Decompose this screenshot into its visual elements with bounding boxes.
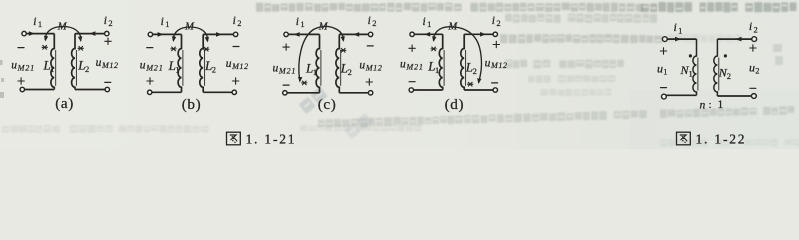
svg-text:1: 1 <box>38 19 42 29</box>
svg-text:i: i <box>423 16 426 28</box>
terminal bottom-right (fig22) <box>752 94 757 99</box>
current arrow i1 (c) <box>294 32 300 37</box>
polarity + right (fig22) <box>750 45 756 51</box>
polarity - top-right (c) <box>367 45 373 47</box>
svg-text:u: u <box>400 59 406 71</box>
page background <box>0 0 799 149</box>
svg-text:1: 1 <box>689 68 693 78</box>
dot marker L1 (b) <box>171 47 176 51</box>
wire top-left (b) <box>153 33 182 35</box>
svg-text:1: 1 <box>300 19 304 29</box>
terminal top-left (b) <box>148 32 152 36</box>
wire top-right (b) <box>203 33 233 35</box>
coupling arc M (c) <box>299 26 344 81</box>
inductor L1 (b) <box>178 34 183 92</box>
current arrow i2 (a) <box>89 31 95 36</box>
svg-text:M21: M21 <box>405 62 423 71</box>
wire top-left (fig22) <box>667 38 697 40</box>
svg-text:u: u <box>749 61 755 75</box>
svg-text:(a): (a) <box>55 95 74 112</box>
terminal bottom-right (d) <box>493 88 497 92</box>
svg-text:2: 2 <box>85 64 89 74</box>
terminal bottom-left (d) <box>409 88 413 92</box>
svg-text:1: 1 <box>663 67 667 77</box>
polarity + top-left (d) <box>409 45 415 51</box>
dot marker L2 (a) <box>78 46 83 50</box>
polarity - bottom-right (d) <box>492 82 498 84</box>
svg-text:M21: M21 <box>278 66 296 75</box>
winding N2 <box>714 39 719 96</box>
terminal bottom-left (fig22) <box>662 94 667 99</box>
svg-text:1: 1 <box>165 19 169 29</box>
inductor L1 (c) <box>316 34 321 92</box>
svg-text:1: 1 <box>427 19 431 29</box>
svg-text:1. 1-22: 1. 1-22 <box>696 131 747 146</box>
polarity - left (fig22) <box>661 87 667 89</box>
svg-text::: : <box>709 99 712 111</box>
svg-text:M12: M12 <box>365 63 383 72</box>
current arrow i2 (d) <box>480 32 486 37</box>
polarity dot N1 <box>689 54 692 57</box>
svg-text:1: 1 <box>50 64 54 74</box>
svg-text:n: n <box>700 99 706 111</box>
terminal top-right (fig22) <box>752 37 757 42</box>
wire bottom-right (c) <box>339 92 368 94</box>
svg-text:i: i <box>33 16 36 28</box>
wire bottom-left (fig22) <box>666 94 696 96</box>
svg-text:2: 2 <box>755 66 759 76</box>
dot marker L1 (c) <box>302 81 307 85</box>
svg-text:u: u <box>485 57 491 69</box>
wire bottom-right (b) <box>203 91 232 93</box>
wire top-left (d) <box>414 33 443 35</box>
polarity + bottom-left (b) <box>147 78 153 84</box>
polarity - bottom-left (d) <box>409 81 415 83</box>
current arrow i1 (a) <box>29 31 35 36</box>
dot marker L2 (c) <box>341 48 346 52</box>
polarity + bottom-right (b) <box>232 78 238 84</box>
svg-text:i: i <box>368 15 371 27</box>
terminal top-left (d) <box>410 32 414 36</box>
polarity + top-right (a) <box>105 38 111 44</box>
svg-text:M21: M21 <box>17 63 35 72</box>
polarity + bottom-right (c) <box>366 79 372 85</box>
terminal top-left (a) <box>22 31 26 35</box>
terminal top-right (d) <box>493 32 497 36</box>
inductor L2 (a) <box>72 34 77 90</box>
polarity - top-right (b) <box>233 46 239 48</box>
polarity - top-left (a) <box>18 47 24 49</box>
terminal bottom-left (b) <box>148 90 152 94</box>
svg-text:2: 2 <box>372 18 376 28</box>
svg-text:2: 2 <box>754 24 758 34</box>
dot marker L1 (d) <box>431 47 436 51</box>
current arrow i2 (c) <box>353 32 359 37</box>
current arrow i1 (fig22) <box>675 37 681 42</box>
polarity - top-left (b) <box>147 47 153 49</box>
wire bottom-left (d) <box>413 89 442 91</box>
current arrow i2 (b) <box>216 32 222 37</box>
svg-text:1: 1 <box>435 65 439 75</box>
svg-text:u: u <box>657 62 663 76</box>
dot marker L2 (b) <box>204 47 209 51</box>
inductor L1 (a) <box>51 34 56 90</box>
svg-text:2: 2 <box>108 18 112 28</box>
inductor L2 (c) <box>336 34 341 92</box>
wire bottom-right (fig22) <box>717 95 751 97</box>
svg-text:(c): (c) <box>318 96 337 113</box>
svg-text:u: u <box>96 57 102 69</box>
terminal bottom-right (b) <box>232 90 236 94</box>
polarity - bottom-left (c) <box>283 84 289 86</box>
svg-text:(d): (d) <box>445 96 465 113</box>
svg-text:i: i <box>674 20 677 34</box>
wire bottom-right (a) <box>75 89 105 91</box>
caption glyph tu (fig 1.1-22) <box>677 132 691 145</box>
wire top-right (fig22) <box>717 38 752 40</box>
svg-text:u: u <box>273 63 279 75</box>
coupling arc M (a) <box>45 27 81 41</box>
polarity - right (fig22) <box>750 87 756 89</box>
polarity + top-right (d) <box>493 41 499 47</box>
wire top-left (c) <box>288 33 319 35</box>
svg-text:M12: M12 <box>231 62 249 71</box>
current arrow i2 (fig22) <box>736 37 742 42</box>
svg-text:i: i <box>296 16 299 28</box>
current arrow i1 (d) <box>424 32 430 37</box>
wire top-right (d) <box>464 33 493 35</box>
svg-text:i: i <box>161 16 164 28</box>
wire bottom-left (c) <box>287 92 320 94</box>
wire top-right (a) <box>75 33 105 35</box>
terminal bottom-right (a) <box>105 87 109 91</box>
svg-text:(b): (b) <box>182 96 202 113</box>
svg-text:u: u <box>11 60 17 72</box>
svg-text:i: i <box>749 19 752 33</box>
dot marker L1 (a) <box>42 45 47 49</box>
wire top-right (c) <box>339 33 368 35</box>
wire bottom-right (d) <box>464 89 493 91</box>
terminal top-right (c) <box>368 32 372 36</box>
dot marker L2 (d) <box>468 82 473 86</box>
svg-text:u: u <box>140 60 146 72</box>
caption glyph tu (fig 1.1-21) <box>227 132 241 145</box>
polarity + left (fig22) <box>660 48 666 54</box>
coupling arc M (d) <box>433 27 481 83</box>
svg-text:1: 1 <box>718 99 724 111</box>
inductor L2 (d) <box>461 34 466 90</box>
svg-text:u: u <box>226 58 232 70</box>
wire top-left (a) <box>26 33 54 35</box>
svg-text:1: 1 <box>678 25 682 35</box>
svg-text:u: u <box>359 60 365 72</box>
polarity + top-left (c) <box>283 44 289 50</box>
svg-text:2: 2 <box>473 66 477 76</box>
svg-text:2: 2 <box>348 67 352 77</box>
current arrow i1 (b) <box>158 32 164 37</box>
polarity dot N2 <box>724 54 727 57</box>
svg-text:M21: M21 <box>145 63 163 72</box>
svg-text:M12: M12 <box>101 61 119 70</box>
svg-text:i: i <box>104 15 107 27</box>
svg-text:2: 2 <box>727 71 731 81</box>
bleed-through text from reverse page (decorative) <box>256 3 643 12</box>
svg-text:1: 1 <box>175 64 179 74</box>
wire bottom-left (b) <box>152 91 182 93</box>
svg-text:i: i <box>492 15 495 27</box>
terminal top-left (c) <box>284 32 288 36</box>
winding N1 <box>693 39 698 95</box>
terminal bottom-left (c) <box>283 91 287 95</box>
terminal top-left (fig22) <box>662 37 667 42</box>
polarity + bottom-left (a) <box>18 78 24 84</box>
svg-text:2: 2 <box>212 64 216 74</box>
svg-text:1: 1 <box>313 67 317 77</box>
terminal top-right (b) <box>233 32 237 36</box>
inductor L1 (d) <box>439 34 444 90</box>
terminal bottom-right (c) <box>368 91 372 95</box>
polarity - bottom-right (a) <box>105 81 111 83</box>
svg-text:M12: M12 <box>490 61 508 70</box>
svg-text:i: i <box>233 15 236 27</box>
svg-text:2: 2 <box>496 18 500 28</box>
inductor L2 (b) <box>200 34 205 92</box>
terminal top-right (a) <box>105 31 109 35</box>
terminal bottom-left (a) <box>20 87 24 91</box>
coupling arc M (b) <box>173 27 207 41</box>
svg-text:2: 2 <box>237 18 241 28</box>
wire bottom-left (a) <box>24 89 54 91</box>
svg-text:1. 1-21: 1. 1-21 <box>246 131 297 146</box>
